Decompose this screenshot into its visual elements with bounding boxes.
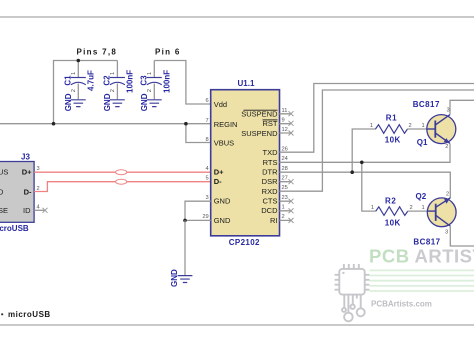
svg-text:RI: RI (270, 216, 278, 225)
wire: USB D+ (red) (34, 171, 211, 173)
wire: ID no-connect stub (34, 209, 45, 211)
svg-text:BC817: BC817 (413, 100, 440, 109)
connector J3 microUSB (0, 153, 40, 234)
no-connect stubs and X marks pins 11,9,12 (280, 114, 292, 133)
junction node left vertical / REGIN (52, 122, 56, 126)
ground under C2 (103, 93, 125, 111)
svg-text:6: 6 (206, 98, 209, 104)
svg-text:9: 9 (282, 118, 285, 124)
svg-text:4.7uF: 4.7uF (87, 70, 96, 91)
svg-text:10K: 10K (385, 136, 401, 145)
svg-text:PCB ARTISTS: PCB ARTISTS (369, 246, 474, 267)
svg-text:100nF: 100nF (163, 70, 172, 93)
junction RTS/R2 (360, 161, 364, 165)
ground under C3 (140, 93, 162, 111)
svg-text:27: 27 (282, 176, 288, 182)
wire: top cap bus (Pins 7,8) (54, 61, 118, 124)
svg-text:2: 2 (409, 123, 412, 129)
svg-text:DSR: DSR (262, 177, 278, 186)
wire: DTR rise to R1 (352, 129, 376, 172)
svg-text:3: 3 (447, 108, 450, 114)
wire: REGIN net from left edge (0, 123, 211, 125)
svg-text:GND: GND (170, 269, 179, 287)
svg-text:Pin 6: Pin 6 (155, 48, 181, 57)
svg-text:C3: C3 (140, 75, 149, 86)
wire: RTS drop to R2 (362, 162, 376, 211)
svg-text:2: 2 (71, 89, 77, 92)
ground under C1 (64, 93, 86, 111)
svg-text:CTS: CTS (263, 197, 278, 206)
transistor Q1 BC817 (413, 100, 474, 150)
transistor Q2 BC817 (413, 192, 474, 247)
no-connect stubs and X marks pins 27,23,1,2 (280, 182, 292, 221)
svg-text:GND: GND (140, 93, 149, 111)
resistor R2 (371, 197, 427, 228)
junction DTR/R1 (350, 170, 354, 174)
svg-text:DCD: DCD (261, 206, 278, 215)
ferrite oval on D- (116, 179, 127, 184)
svg-text:TXD: TXD (263, 148, 279, 157)
svg-text:24: 24 (282, 156, 288, 162)
svg-text:8: 8 (206, 137, 209, 143)
wire: chip GND pin3 (185, 201, 211, 220)
svg-text:GND: GND (64, 93, 73, 111)
wire: chip GND pin29 (185, 219, 211, 221)
svg-text:C2: C2 (103, 75, 112, 86)
svg-text:2: 2 (445, 144, 448, 150)
wire: TXD out (280, 84, 474, 153)
svg-text:RTS: RTS (263, 158, 278, 167)
wire: GND drop (184, 220, 186, 275)
svg-text:Pins 7,8: Pins 7,8 (77, 48, 118, 57)
IC U1 CP2102 body (211, 90, 280, 236)
svg-text:29: 29 (202, 214, 208, 220)
svg-text:5: 5 (206, 176, 209, 182)
svg-text:3: 3 (445, 230, 448, 236)
ground chip (170, 269, 193, 287)
svg-text:4: 4 (37, 205, 40, 211)
svg-text:GND: GND (103, 93, 112, 111)
svg-text:RXD: RXD (262, 187, 278, 196)
svg-text:D: D (0, 187, 4, 196)
svg-text:DTR: DTR (262, 168, 278, 177)
svg-text:PCBArtists.com: PCBArtists.com (371, 300, 432, 309)
svg-text:Q1: Q1 (417, 138, 428, 147)
svg-text:GND: GND (214, 197, 231, 206)
svg-text:1: 1 (370, 123, 373, 129)
svg-text:D-: D- (214, 177, 222, 186)
svg-text:2: 2 (282, 214, 285, 220)
svg-text:2: 2 (446, 192, 449, 198)
svg-text:25: 25 (282, 185, 288, 191)
svg-text:2: 2 (410, 205, 413, 211)
svg-text:1: 1 (282, 205, 285, 211)
svg-text:23: 23 (282, 195, 288, 201)
svg-text:RST: RST (263, 119, 278, 128)
svg-text:ID: ID (23, 206, 31, 215)
svg-text:12: 12 (282, 127, 288, 133)
svg-text:D+: D+ (22, 168, 32, 177)
svg-text:J3: J3 (21, 153, 30, 162)
svg-text:1: 1 (422, 123, 425, 129)
svg-text:3: 3 (37, 166, 40, 172)
svg-text:11: 11 (282, 108, 288, 114)
svg-text:BC817: BC817 (413, 238, 440, 247)
svg-text:1: 1 (371, 205, 374, 211)
svg-text:D-: D- (24, 187, 32, 196)
svg-text:1: 1 (71, 72, 77, 75)
svg-text:2: 2 (110, 89, 116, 92)
wire: RXD out to Q2 collector (280, 90, 474, 191)
svg-text:3: 3 (206, 195, 209, 201)
svg-text:R2: R2 (385, 197, 396, 206)
svg-text:4: 4 (206, 166, 209, 172)
junction GND (183, 219, 187, 223)
svg-text:C1: C1 (64, 75, 73, 86)
capacitor C1 (64, 61, 96, 100)
svg-text:GND: GND (214, 216, 231, 225)
junction node on cap bus (77, 59, 81, 63)
junction node REGIN / VBUS (184, 122, 188, 126)
wire: Pin 6 net C3 to Vdd (154, 61, 210, 105)
svg-text:10K: 10K (385, 218, 401, 227)
svg-text:SUSPEND: SUSPEND (241, 110, 278, 119)
svg-text:R1: R1 (386, 114, 397, 123)
svg-text:1: 1 (422, 205, 425, 211)
watermark logo chip icon (335, 264, 370, 321)
svg-text:US: US (0, 168, 8, 177)
svg-text:100nF: 100nF (126, 70, 135, 93)
svg-text:SUSPEND: SUSPEND (241, 129, 278, 138)
svg-text:1: 1 (110, 72, 116, 75)
wire: VBUS drop (186, 124, 211, 143)
svg-text:SE: SE (0, 206, 8, 215)
svg-text:VBUS: VBUS (214, 139, 234, 148)
resistor R1 (370, 114, 427, 145)
sheet top border line (0, 16, 474, 18)
wire: DTR to Q2 emitter (280, 172, 451, 198)
svg-text:D+: D+ (214, 168, 224, 177)
svg-text:Q2: Q2 (416, 192, 427, 201)
svg-text:28: 28 (282, 166, 288, 172)
sheet bottom border line (0, 324, 474, 326)
svg-text:microUSB: microUSB (8, 310, 51, 319)
svg-text:1: 1 (147, 72, 153, 75)
wire: RTS to Q1 emitter (280, 144, 451, 163)
svg-text:U1.1: U1.1 (238, 79, 255, 88)
ferrite oval on D+ (116, 170, 127, 175)
wire: USB D- (red) (34, 182, 211, 192)
svg-text:Vdd: Vdd (214, 100, 227, 109)
capacitor C3 (140, 61, 172, 100)
legend text microUSB (1, 313, 3, 315)
svg-text:2: 2 (147, 89, 153, 92)
svg-text:microUSB: microUSB (0, 224, 29, 233)
svg-text:CP2102: CP2102 (229, 238, 260, 247)
watermark green lines (370, 270, 474, 291)
capacitor C2 (103, 61, 135, 100)
svg-text:7: 7 (206, 118, 209, 124)
svg-text:REGIN: REGIN (214, 120, 238, 129)
